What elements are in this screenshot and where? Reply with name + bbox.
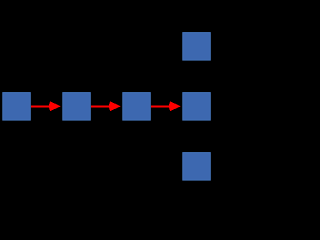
node T1 (right column top): [183, 33, 211, 61]
node T3 (right column bottom): [183, 153, 211, 181]
node B3 (row square 3): [123, 93, 151, 121]
wire arrow 2: [91, 101, 121, 111]
node B2 (row square 2): [63, 93, 91, 121]
wire arrow 3: [151, 101, 181, 111]
node B4 (row square 4 / right column middle): [183, 93, 211, 121]
wire arrow 1: [31, 101, 61, 111]
node B1 (row square 1): [3, 93, 31, 121]
